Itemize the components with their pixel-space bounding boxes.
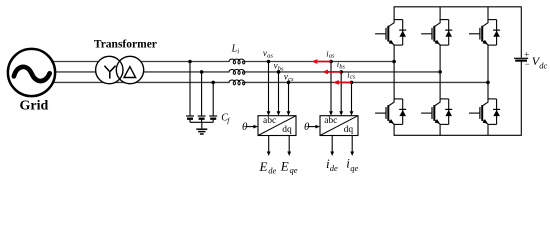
ibs current arrow (red) (322, 70, 341, 75)
Vdc label (532, 54, 548, 70)
svg-text:dc: dc (539, 60, 547, 70)
node ias tap (329, 60, 333, 64)
svg-text:cs: cs (350, 74, 356, 81)
svg-text:E: E (280, 159, 289, 174)
transistor Q4 lower leg B (421, 99, 452, 125)
svg-text:−: − (525, 59, 530, 69)
svg-text:as: as (329, 53, 335, 60)
node cap tap C (211, 81, 215, 85)
wire leg A mid (393, 45, 395, 99)
transistor Q2 lower leg A (375, 99, 406, 125)
abc-dq block U1 (voltage) (258, 116, 296, 136)
node phase A to leg (392, 60, 396, 64)
ide label (326, 156, 338, 173)
svg-text:bs: bs (339, 63, 345, 70)
Eqe label (280, 159, 298, 175)
iqe label (346, 156, 358, 173)
ground (196, 122, 207, 134)
DC source Vdc plates (514, 58, 528, 60)
vbs label (274, 61, 284, 73)
output arrow Ede (267, 136, 271, 157)
wire ias drop arrow (330, 62, 332, 112)
capacitor Cf phase C (209, 116, 217, 122)
node ics tap (350, 81, 354, 85)
inductor Li phase C (229, 80, 245, 85)
capacitor Cf phase B (198, 116, 206, 122)
output arrow Eqe (287, 136, 291, 157)
svg-text:qe: qe (350, 163, 358, 173)
svg-text:de: de (268, 165, 276, 175)
theta input U2 (304, 121, 320, 133)
wire phase C (44, 81, 488, 83)
AC source (Grid) circle (8, 49, 55, 96)
Cf value label (221, 113, 230, 125)
wire ibs drop arrow (340, 72, 342, 112)
transistor Q3 upper leg B (421, 20, 452, 45)
ics label (347, 69, 355, 80)
svg-text:E: E (259, 159, 268, 174)
svg-text:Grid: Grid (20, 99, 49, 114)
wire leg C mid (487, 45, 489, 99)
capacitor Cf phase A (186, 116, 194, 122)
node ibs tap (339, 70, 343, 74)
transformer delta symbol (124, 67, 136, 78)
transformer wye symbol (104, 66, 115, 79)
wire ics drop arrow (351, 82, 353, 111)
node phase C to leg (486, 81, 490, 85)
wire vbs drop arrow (278, 72, 280, 112)
AC source sine wave (14, 67, 50, 81)
wire leg B top (439, 7, 441, 20)
transformer secondary circle fill (116, 56, 143, 83)
inductor Li phase B (229, 70, 245, 75)
node cap tap B (200, 70, 204, 74)
wire DC bottom rail (394, 61, 521, 135)
wire cap A vertical (189, 62, 191, 116)
node vcs tap (287, 81, 291, 85)
svg-text:abc: abc (324, 116, 337, 126)
ias label (326, 48, 335, 59)
transistor Q6 lower leg C (469, 99, 500, 125)
wire phase B (50, 71, 440, 73)
svg-text:dq: dq (344, 125, 354, 135)
ibs label (337, 59, 346, 70)
inductor Li phase A (229, 59, 245, 64)
svg-text:de: de (330, 163, 338, 173)
wire leg C top (487, 7, 489, 20)
transformer primary circle fill (96, 56, 123, 83)
vas label (263, 48, 273, 60)
ics current arrow (red) (333, 80, 352, 85)
vcs label (284, 71, 294, 83)
wire capacitor common bus (190, 121, 213, 123)
transformer primary circle (96, 56, 123, 83)
svg-text:qe: qe (290, 165, 298, 175)
svg-text:cs: cs (288, 76, 294, 83)
svg-text:i: i (237, 47, 239, 55)
Ede label (259, 159, 277, 175)
transformer secondary circle (116, 56, 143, 83)
svg-text:as: as (267, 53, 273, 60)
output arrow iqe (350, 136, 354, 157)
wire vas drop arrow (268, 62, 270, 112)
transistor Q5 upper leg C (469, 20, 500, 45)
wire phase A (44, 61, 394, 63)
svg-text:+: + (524, 49, 529, 59)
wire vcs drop arrow (288, 82, 290, 111)
wire leg B bottom (439, 124, 441, 135)
wire cap B vertical (201, 72, 203, 116)
node cap tap A (188, 60, 192, 64)
node vbs tap (277, 70, 281, 74)
Li value label (231, 44, 240, 56)
abc-dq block U2 (current) (320, 116, 358, 136)
theta input U1 (242, 121, 258, 133)
svg-text:Transformer: Transformer (94, 39, 157, 51)
node vas tap (267, 60, 271, 64)
wire DC top rail (394, 7, 521, 58)
wire leg C bottom (487, 124, 489, 135)
ias current arrow (red) (312, 59, 332, 64)
node phase B to leg (438, 70, 442, 74)
transistor Q1 upper leg A (375, 20, 406, 45)
wire leg B mid (439, 45, 441, 99)
output arrow ide (330, 136, 334, 157)
svg-text:abc: abc (263, 116, 276, 126)
wire cap C vertical (212, 82, 214, 115)
svg-text:dq: dq (282, 125, 292, 135)
